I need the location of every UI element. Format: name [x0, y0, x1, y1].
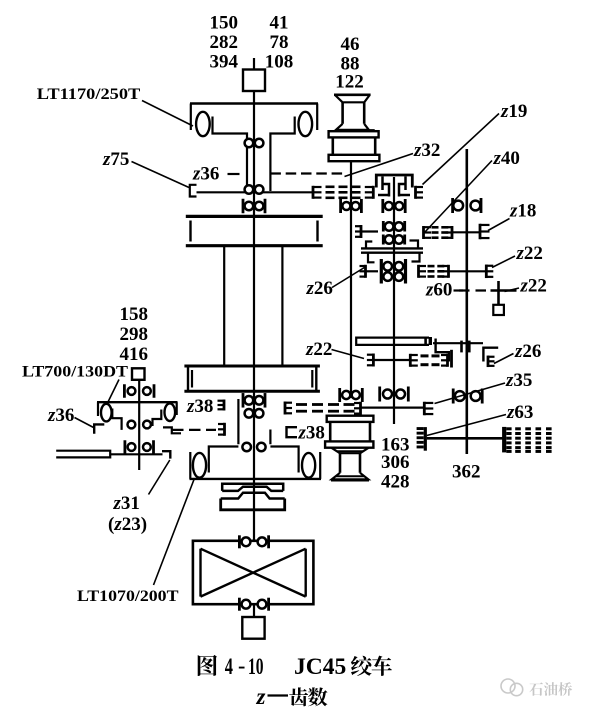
coupling pair motor top [238, 535, 241, 548]
gear cluster upper pinions [385, 222, 394, 231]
leader z22 right2 [505, 288, 520, 292]
leader z22 left [332, 350, 365, 359]
svg-text:z32: z32 [413, 140, 440, 161]
jaw z31 [162, 451, 170, 458]
svg-text:78: 78 [270, 32, 289, 53]
clutch fork left y232 [360, 225, 363, 238]
drum LT700/130DT body [97, 401, 178, 403]
svg-text:z26: z26 [514, 341, 541, 362]
svg-text:LT1070/200T: LT1070/200T [77, 588, 179, 605]
gear pair z36 on drum shaft [245, 185, 254, 194]
caption 图 [198, 655, 217, 676]
clutch hub z75 bracket [190, 185, 197, 197]
svg-text:z35: z35 [505, 370, 532, 391]
clutch z26 right group [483, 348, 498, 362]
catshaft hollow bar [56, 451, 110, 458]
clutch hub z38 right [287, 427, 298, 437]
coupling square top [243, 70, 265, 92]
drum LT1170/250T body [190, 102, 318, 104]
leader LT1070/200T [154, 480, 195, 586]
leader LT1170/250T [142, 101, 193, 127]
svg-text:362: 362 [452, 462, 481, 483]
coupling upper half [222, 484, 283, 491]
gear z22 on layshaft (cross) [497, 281, 500, 305]
motor output square [242, 617, 264, 639]
wire y343 to right [433, 342, 483, 344]
gear hub ticks y343 [460, 341, 463, 353]
cathead upper (capstan) [334, 94, 371, 97]
svg-text:z19: z19 [500, 101, 527, 122]
svg-text:z36: z36 [192, 164, 219, 185]
bearing pair right shaft y205.5 [451, 198, 454, 213]
gearbox upper housing [186, 215, 323, 218]
tick z60 [454, 289, 464, 291]
leader z18 [488, 219, 510, 231]
svg-text:z75: z75 [102, 149, 129, 170]
svg-text:z22: z22 [305, 339, 332, 360]
svg-text:306: 306 [381, 452, 410, 473]
bearing pair gear shaft bottom [378, 387, 381, 402]
clutch fork z22 gear [485, 265, 488, 279]
dashed wire LT700 to drum [172, 429, 216, 431]
coupling pair motor bottom [238, 598, 241, 611]
clutch dashes y232 [432, 226, 439, 229]
leader z75 [132, 162, 190, 188]
svg-text:z18: z18 [509, 201, 536, 222]
bearing pair LT700 y447 [124, 440, 127, 454]
bearing pair drum shaft y206 [242, 199, 245, 214]
leader z19 [423, 114, 500, 185]
gear pair LT700 y424.5 [127, 421, 135, 429]
tick z36 [228, 173, 240, 175]
svg-text:10: 10 [248, 654, 264, 680]
clutch dashes y271 [428, 265, 435, 268]
svg-text:z22: z22 [516, 243, 543, 264]
shaft right main vertical [465, 149, 468, 454]
wire brake shaft y438 [427, 437, 503, 440]
gearbox lower housing [184, 365, 320, 368]
bearing pair LT700 y391 [123, 384, 126, 398]
leader z63 [427, 415, 506, 436]
svg-text:158: 158 [120, 304, 149, 325]
clutch fork reversed y192 [372, 186, 375, 199]
svg-text:46: 46 [341, 34, 360, 55]
svg-text:(z23): (z23) [108, 514, 147, 535]
clutch fork E lower drum row [284, 402, 287, 415]
bracket step y343 [436, 339, 449, 362]
svg-text:41: 41 [270, 13, 289, 34]
leader z36 lower-left [75, 418, 95, 429]
clutch fork E right of z19 [414, 186, 417, 199]
clutch fork left y271 [364, 265, 367, 278]
caption 车 [372, 656, 392, 676]
svg-text:z22: z22 [520, 276, 547, 297]
wire low-speed line y192 [197, 191, 314, 193]
bearing pair right shaft y396 [452, 389, 455, 404]
clutch fork reversed y232 [451, 226, 454, 239]
svg-text:394: 394 [210, 52, 239, 73]
leader z26 left [332, 267, 366, 288]
leader z35 [435, 383, 506, 404]
caption 数 [308, 687, 327, 706]
svg-text:428: 428 [381, 472, 410, 493]
shaft gear cluster vertical [393, 177, 395, 424]
svg-text:-: - [238, 653, 245, 678]
gear pair on drum shaft [245, 139, 254, 148]
svg-text:416: 416 [120, 344, 149, 365]
clutch fork z35 gear [423, 402, 426, 416]
svg-text:LT700/130DT: LT700/130DT [22, 364, 128, 381]
gear pair drum shaft y413 [245, 409, 254, 418]
motor housing [193, 541, 314, 604]
gear pair drum shaft y447 [242, 443, 251, 452]
pinion z63 (comb) [424, 427, 427, 451]
leader LT700/130DT [107, 380, 119, 405]
leader z26 right [494, 354, 514, 364]
jaw clutch z19 housing [376, 175, 412, 188]
clutch fork E y232 [422, 226, 425, 239]
svg-text:z38: z38 [186, 396, 213, 417]
clutch fork reversed y408 [359, 402, 362, 415]
bearing pair cathead y205.5 [339, 199, 342, 213]
leader z31 [149, 460, 170, 495]
bearing pair cathead bottom [338, 388, 341, 402]
cathead lower (reverse capstan) [327, 416, 374, 422]
svg-text:z60: z60 [425, 280, 452, 301]
drum LT1070/200T body [209, 399, 239, 473]
svg-text:z63: z63 [506, 402, 533, 423]
wire left vertical to lower gearbox [223, 246, 225, 366]
wire right vertical to lower gearbox [281, 246, 283, 366]
bearing pair drum shaft y400 [242, 393, 245, 408]
clutch fork E y360 [409, 354, 412, 367]
watermark 石油桥 [529, 682, 572, 696]
clutch bracket z38 left [223, 400, 226, 411]
dashed line drum to cathead [270, 172, 346, 174]
svg-text:282: 282 [210, 32, 239, 53]
clutch dashes lower drum row [296, 403, 307, 406]
watermark logo [501, 679, 515, 693]
clutch fork reversed y271 [447, 265, 450, 278]
wire y408 [361, 407, 424, 409]
svg-text:298: 298 [120, 324, 149, 345]
svg-text:LT1170/250T: LT1170/250T [37, 86, 141, 103]
input square LT700 [132, 368, 145, 380]
bearing pair gear shaft y205.5 [381, 199, 384, 213]
gear cluster lower pinions [383, 262, 392, 271]
svg-text:z31: z31 [113, 493, 140, 514]
gear z22 sliding (long bar) [356, 338, 429, 345]
svg-text:JC45: JC45 [294, 654, 346, 680]
svg-text:z26: z26 [306, 278, 333, 299]
clutch fork reversed z38 right row [223, 423, 226, 436]
clutch dashes y192 [326, 186, 335, 189]
clutch fork reversed y360a [372, 354, 375, 367]
svg-text:4: 4 [225, 654, 233, 680]
svg-text:z38: z38 [298, 423, 325, 444]
svg-text:108: 108 [265, 52, 294, 73]
leader z32 [345, 154, 414, 177]
wire y271 to right shaft [449, 270, 486, 272]
leader z22 right1 [492, 256, 515, 268]
brake drum comb [502, 427, 506, 453]
clutch fork E y271 [417, 265, 420, 278]
svg-text:z36: z36 [47, 405, 74, 426]
wire y232 to right shaft [453, 231, 480, 233]
clutch fork E y192 [312, 186, 315, 199]
clutch dashes y360 [421, 354, 429, 357]
gear cluster mid flange [361, 247, 423, 249]
svg-text:122: 122 [335, 72, 364, 93]
motor rotor (bowtie) [199, 549, 201, 597]
caption dash [268, 694, 289, 696]
clutch fork reversed y360b [446, 354, 449, 367]
clutch bracket z36 [94, 424, 104, 433]
shaft LT700 vertical [138, 380, 140, 470]
coupling lower half [221, 499, 285, 510]
shaft cathead vertical [350, 161, 352, 398]
svg-text:z40: z40 [493, 148, 520, 169]
wire catshaft [110, 453, 162, 455]
svg-text:z: z [256, 684, 266, 709]
svg-text:150: 150 [210, 13, 239, 34]
wire y360 [373, 359, 410, 361]
shaft main drum (vertical) [253, 58, 255, 70]
clutch fork z18 gear [479, 224, 482, 240]
leader z40 [424, 161, 492, 234]
caption 齿 [289, 687, 308, 706]
dashed wire z60 [459, 289, 487, 291]
caption 绞 [351, 656, 372, 676]
